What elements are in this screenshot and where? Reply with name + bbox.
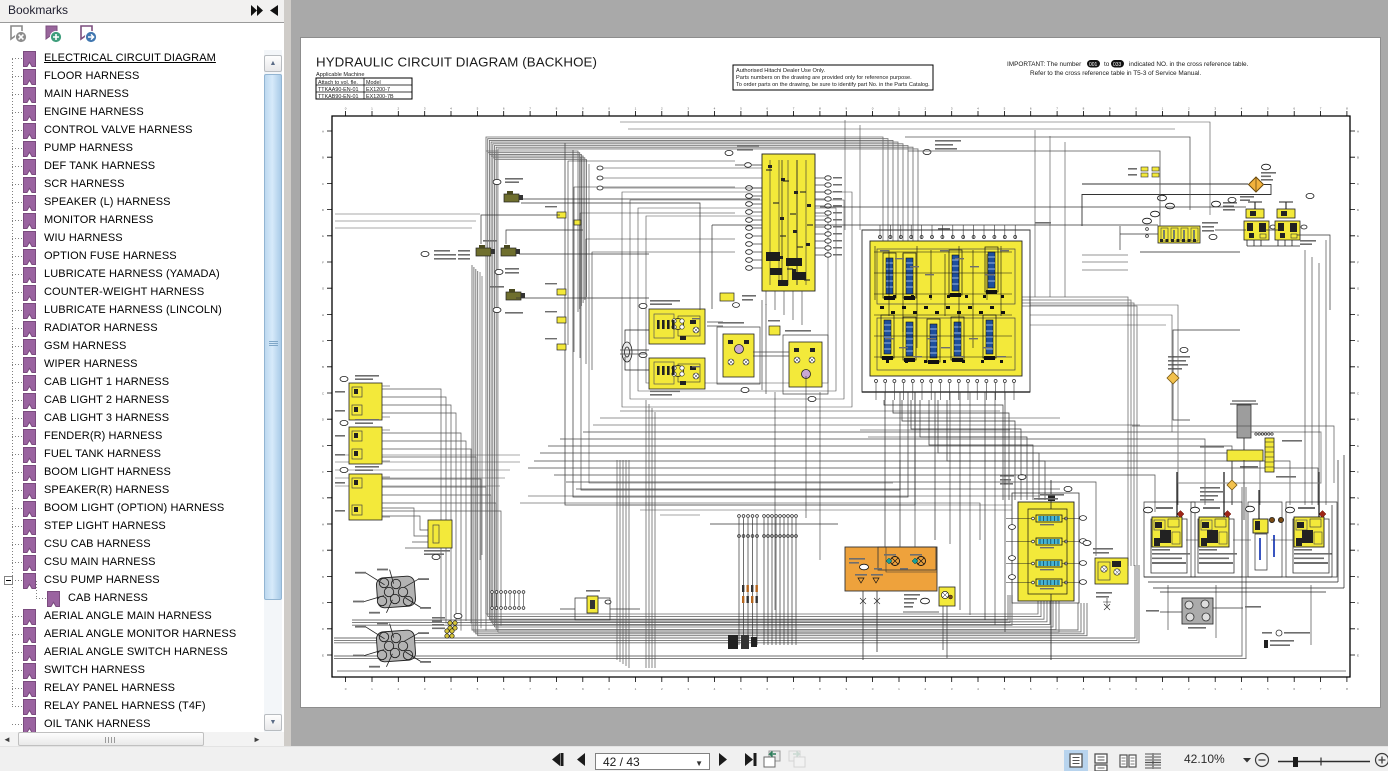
add bookmark icon [46,26,62,43]
svg-text:1: 1 [1162,107,1164,111]
svg-text:7: 7 [1320,107,1322,111]
svg-text:E: E [1357,653,1359,657]
svg-text:9: 9 [582,687,584,691]
svg-text:1: 1 [371,107,373,111]
svg-text:C: C [1357,182,1360,186]
pilot valve connectors [349,383,382,420]
svg-text:5: 5 [477,107,479,111]
svg-text:2: 2 [1188,107,1190,111]
joint symbols [1141,167,1148,171]
starter motor SM1 [1178,432,1321,483]
pump regulator [1255,534,1267,570]
svg-text:8: 8 [819,687,821,691]
svg-text:Applicable Machine: Applicable Machine [316,72,365,78]
svg-text:7: 7 [1056,107,1058,111]
svg-text:5: 5 [1267,687,1269,691]
svg-text:3: 3 [1214,687,1216,691]
svg-text:A: A [1357,129,1359,133]
svg-text:B: B [322,365,324,369]
svg-text:3: 3 [951,107,953,111]
svg-text:Refer to the cross reference t: Refer to the cross reference table in T5… [1030,70,1201,77]
svg-text:8: 8 [819,107,821,111]
svg-text:0: 0 [608,107,610,111]
svg-text:2: 2 [661,107,663,111]
svg-text:E: E [322,653,324,657]
svg-text:9: 9 [582,107,584,111]
svg-text:4: 4 [1241,687,1243,691]
svg-text:8: 8 [1083,107,1085,111]
svg-text:7: 7 [793,687,795,691]
svg-text:0: 0 [1135,107,1137,111]
svg-text:3: 3 [1214,107,1216,111]
wire bundle to pumps [1022,297,1128,566]
check valve CV1 [939,587,955,606]
svg-text:HYDRAULIC CIRCUIT DIAGRAM (BAC: HYDRAULIC CIRCUIT DIAGRAM (BACKHOE) [316,55,597,70]
svg-text:D: D [1357,208,1360,212]
svg-text:7: 7 [793,107,795,111]
svg-text:F: F [322,470,324,474]
svg-text:4: 4 [977,687,979,691]
svg-text:8: 8 [1346,107,1348,111]
svg-text:2: 2 [1188,687,1190,691]
svg-text:D: D [322,418,325,422]
svg-text:001: 001 [1089,62,1098,68]
Bottom toolbar [0,746,1388,771]
svg-text:7: 7 [1056,687,1058,691]
svg-text:E: E [322,234,324,238]
svg-text:9: 9 [845,687,847,691]
svg-text:4: 4 [1241,107,1243,111]
svg-text:1: 1 [1162,687,1164,691]
svg-text:9: 9 [845,107,847,111]
wires below manifold [884,400,1003,500]
svg-text:A: A [322,549,324,553]
previous view [764,751,780,767]
svg-text:A: A [1357,549,1359,553]
pressure switch PS3 [1227,480,1237,490]
layout mode icons [1060,747,1388,771]
buzzer BZ1 [575,598,610,620]
svg-text:C: C [322,182,325,186]
pump manifold P1 [376,576,416,609]
svg-text:F: F [1357,260,1359,264]
wire drops below motors [617,460,629,668]
svg-text:4: 4 [714,107,716,111]
svg-text:4: 4 [714,687,716,691]
svg-text:A: A [322,129,324,133]
svg-text:3: 3 [424,687,426,691]
svg-text:F: F [1357,470,1359,474]
svg-text:7: 7 [529,687,531,691]
svg-text:2: 2 [924,107,926,111]
svg-text:5: 5 [477,687,479,691]
svg-text:2: 2 [924,687,926,691]
svg-text:8: 8 [1346,687,1348,691]
long top wires [712,207,1246,309]
svg-text:H: H [1357,522,1359,526]
svg-text:5: 5 [1004,107,1006,111]
delete bookmark icon [11,26,27,43]
svg-text:1: 1 [635,107,637,111]
svg-text:F: F [322,260,324,264]
svg-text:8: 8 [556,687,558,691]
travel motor M1 [622,342,632,362]
Main viewer [291,0,1388,746]
pressure sensors [504,194,519,202]
svg-text:5: 5 [1267,107,1269,111]
hydraulic oil tank [845,547,937,591]
svg-text:IMPORTANT: The number: IMPORTANT: The number [1007,61,1082,68]
pressure switch PS1 [1249,177,1264,192]
svg-text:9: 9 [1109,107,1111,111]
solenoid manifold V5 [1012,493,1079,603]
wire bundle main loop [486,137,883,614]
svg-text:G: G [1357,287,1360,291]
svg-text:E: E [1357,234,1359,238]
control valve block V1 [762,154,815,291]
svg-text:6: 6 [503,107,505,111]
svg-text:C: C [1357,601,1360,605]
svg-text:D: D [1357,418,1360,422]
svg-text:6: 6 [503,687,505,691]
svg-text:0: 0 [345,687,347,691]
svg-text:4: 4 [450,107,452,111]
svg-text:A: A [322,339,324,343]
svg-text:Parts numbers on the drawing a: Parts numbers on the drawing are provide… [736,75,912,81]
svg-text:5: 5 [740,107,742,111]
connector plugs [557,212,566,218]
svg-text:2: 2 [661,687,663,691]
pump No.2 [1198,519,1234,573]
pressure switch PS2 [1167,372,1179,384]
svg-text:D: D [322,627,325,631]
svg-text:4: 4 [977,107,979,111]
svg-text:4: 4 [450,687,452,691]
wires from pilot connectors [382,389,441,621]
compressor unit [1182,598,1213,624]
svg-text:6: 6 [1030,107,1032,111]
svg-text:0: 0 [608,687,610,691]
svg-text:5: 5 [1004,687,1006,691]
svg-text:9: 9 [1109,687,1111,691]
pin header J2 [491,591,494,594]
svg-text:G: G [1357,496,1360,500]
svg-text:5: 5 [740,687,742,691]
svg-text:2: 2 [397,687,399,691]
svg-text:C: C [322,391,325,395]
fuse strip F1 [1158,226,1200,243]
svg-text:Authorised Hitachi Dealer Use: Authorised Hitachi Dealer Use Only. [736,68,826,74]
svg-text:3: 3 [951,687,953,691]
pump No.3 [1293,519,1329,573]
svg-text:0: 0 [872,687,874,691]
svg-text:E: E [322,444,324,448]
next bookmark icon [81,26,97,43]
svg-text:1: 1 [371,687,373,691]
wire bundle bottom [352,595,1008,620]
svg-text:A: A [1357,339,1359,343]
svg-text:B: B [1357,575,1359,579]
svg-text:7: 7 [529,107,531,111]
svg-text:D: D [1357,627,1360,631]
svg-text:0: 0 [345,107,347,111]
svg-text:H: H [322,522,324,526]
travel motor valve T1 [649,309,705,344]
svg-text:1: 1 [898,687,900,691]
pump manifold P2 [376,630,416,663]
svg-text:033: 033 [1113,62,1122,68]
next view (disabled) [789,751,805,767]
pin header J1 [738,515,741,518]
section outline wires [565,143,915,505]
svg-text:C: C [322,601,325,605]
svg-text:1: 1 [898,107,900,111]
svg-text:0: 0 [1135,687,1137,691]
svg-text:6: 6 [1030,687,1032,691]
svg-text:C: C [1357,391,1360,395]
check valve block CV2 [1095,558,1128,584]
svg-text:G: G [322,496,325,500]
center wire drops [885,392,1005,632]
svg-text:indicated NO. in the cross ref: indicated NO. in the cross reference tab… [1129,61,1249,68]
counterbalance valve V3 [717,327,760,384]
svg-text:7: 7 [1320,687,1322,691]
svg-text:3: 3 [687,687,689,691]
legend [1262,632,1272,634]
svg-text:6: 6 [766,107,768,111]
accumulator ports [448,621,452,625]
svg-text:D: D [322,208,325,212]
svg-text:8: 8 [1083,687,1085,691]
svg-text:3: 3 [687,107,689,111]
wire bundle upper stair [486,151,578,312]
svg-text:B: B [322,575,324,579]
svg-text:2: 2 [397,107,399,111]
page header text [316,55,1249,101]
svg-text:6: 6 [1293,687,1295,691]
svg-text:B: B [1357,365,1359,369]
pump No.1 [1151,519,1187,573]
svg-text:To order parts on the drawing,: To order parts on the drawing, be sure t… [736,82,930,88]
svg-text:3: 3 [424,107,426,111]
fuse marks [742,585,744,592]
svg-text:E: E [1357,444,1359,448]
filter units FL1 FL2 [1246,209,1264,218]
svg-text:G: G [322,287,325,291]
svg-text:H: H [1357,313,1359,317]
svg-text:1: 1 [635,687,637,691]
drawing frame [332,116,1350,677]
wire bundle left vertical [472,265,1078,630]
svg-text:B: B [322,156,324,160]
wire loop ring [622,192,852,407]
svg-text:6: 6 [1293,107,1295,111]
Sidebar panel [0,0,290,746]
wires to travel motors [568,161,735,370]
connector blocks CN1 [728,635,738,649]
svg-text:B: B [1357,156,1359,160]
solenoid valve manifold V2 [862,230,1030,392]
svg-text:to: to [1104,61,1110,68]
svg-text:H: H [322,313,324,317]
svg-text:0: 0 [872,107,874,111]
svg-text:8: 8 [556,107,558,111]
svg-text:6: 6 [766,687,768,691]
long middle wires [583,432,1178,505]
